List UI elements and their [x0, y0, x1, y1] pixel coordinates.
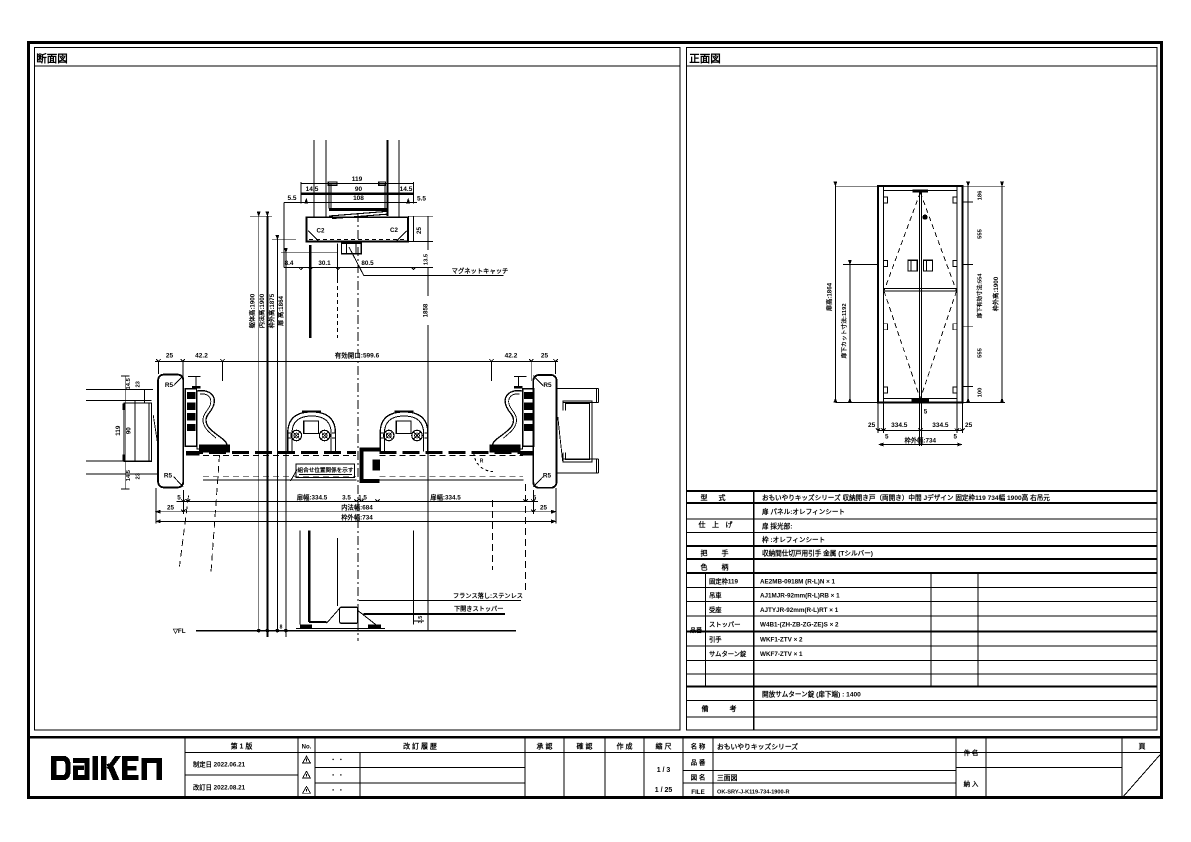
svg-text:・ ・: ・ ・ — [330, 788, 344, 794]
svg-text:5: 5 — [953, 433, 957, 440]
svg-text:受座: 受座 — [709, 605, 722, 614]
svg-text:三面図: 三面図 — [717, 773, 738, 782]
svg-text:扉下有効寸法:554: 扉下有効寸法:554 — [976, 273, 984, 319]
svg-text:13.5: 13.5 — [424, 253, 430, 265]
svg-text:42.2: 42.2 — [195, 353, 208, 360]
svg-text:25: 25 — [868, 422, 876, 429]
svg-text:100: 100 — [978, 388, 984, 398]
svg-text:扉高:1864: 扉高:1864 — [826, 282, 834, 312]
svg-text:R: R — [480, 459, 484, 465]
svg-text:R5: R5 — [543, 473, 552, 480]
svg-text:1 / 3: 1 / 3 — [657, 767, 671, 774]
svg-text:備: 備 — [702, 704, 709, 713]
svg-text:内法幅:684: 内法幅:684 — [341, 503, 373, 512]
svg-text:5: 5 — [885, 433, 889, 440]
svg-text:マグネットキャッチ: マグネットキャッチ — [452, 266, 509, 275]
svg-text:制定日 2022.06.21: 制定日 2022.06.21 — [193, 760, 246, 769]
svg-text:フランス落し:ステンレス: フランス落し:ステンレス — [453, 592, 523, 600]
svg-text:1858: 1858 — [423, 303, 430, 317]
svg-text:作 成: 作 成 — [617, 742, 633, 751]
svg-text:186: 186 — [978, 190, 984, 200]
svg-text:式: 式 — [719, 493, 726, 502]
svg-text:おもいやりキッズシリーズ: おもいやりキッズシリーズ — [717, 742, 798, 751]
svg-text:25: 25 — [167, 505, 175, 512]
svg-text:334.5: 334.5 — [932, 422, 949, 429]
svg-text:枠外幅:734: 枠外幅:734 — [904, 436, 937, 445]
svg-text:改訂日 2022.08.21: 改訂日 2022.08.21 — [193, 783, 246, 792]
svg-text:把: 把 — [701, 549, 708, 558]
svg-text:119: 119 — [352, 176, 363, 183]
svg-text:5: 5 — [177, 495, 181, 502]
svg-text:品 番: 品 番 — [691, 758, 706, 767]
svg-text:AJ1MJR-92mm(R-L)RB × 1: AJ1MJR-92mm(R-L)RB × 1 — [760, 593, 840, 600]
svg-text:上: 上 — [712, 520, 719, 529]
svg-text:W4B1-(ZH-ZB-ZG-ZE)S × 2: W4B1-(ZH-ZB-ZG-ZE)S × 2 — [760, 622, 839, 629]
svg-text:名 称: 名 称 — [691, 742, 706, 751]
svg-text:躯体高:1900: 躯体高:1900 — [249, 293, 257, 329]
svg-text:開放サムターン錠 (扉下端) : 1400: 開放サムターン錠 (扉下端) : 1400 — [762, 690, 861, 699]
svg-text:5: 5 — [924, 409, 928, 416]
svg-text:正面図: 正面図 — [689, 53, 721, 65]
svg-text:頁: 頁 — [1139, 743, 1146, 751]
svg-text:改 訂 履 歴: 改 訂 履 歴 — [403, 742, 437, 751]
svg-text:14.5: 14.5 — [126, 469, 132, 481]
svg-text:色: 色 — [701, 563, 708, 572]
svg-text:内法高:1900: 内法高:1900 — [258, 293, 266, 328]
svg-text:仕: 仕 — [698, 520, 706, 529]
svg-text:・ ・: ・ ・ — [330, 758, 344, 764]
svg-text:有効開口:599.6: 有効開口:599.6 — [335, 351, 380, 360]
svg-text:枠外幅:734: 枠外幅:734 — [340, 513, 373, 522]
svg-text:扉 高:1864: 扉 高:1864 — [277, 295, 285, 326]
svg-text:25: 25 — [540, 505, 548, 512]
svg-text:型: 型 — [701, 493, 708, 502]
svg-text:下開きストッパー: 下開きストッパー — [454, 605, 504, 613]
svg-text:WKF7-ZTV × 1: WKF7-ZTV × 1 — [760, 651, 803, 658]
svg-text:固定枠119: 固定枠119 — [709, 577, 739, 586]
svg-text:25: 25 — [166, 353, 174, 360]
svg-text:枠外高:1875: 枠外高:1875 — [268, 293, 276, 329]
svg-text:断面図: 断面図 — [36, 52, 68, 65]
svg-text:おもいやりキッズシリーズ 収納開き戸（両開き）中間 Jデ: おもいやりキッズシリーズ 収納開き戸（両開き）中間 Jデザイン 固定枠119 7… — [762, 493, 1050, 502]
svg-text:手: 手 — [722, 549, 729, 558]
svg-text:げ: げ — [726, 520, 734, 529]
svg-text:納 入: 納 入 — [964, 779, 979, 788]
svg-text:23: 23 — [135, 380, 141, 387]
svg-text:FILE: FILE — [691, 789, 704, 796]
svg-text:23: 23 — [135, 472, 141, 479]
svg-text:考: 考 — [730, 704, 737, 713]
svg-text:扉 採光部:: 扉 採光部: — [762, 522, 792, 531]
svg-text:30.1: 30.1 — [318, 260, 331, 267]
svg-text:5.5: 5.5 — [287, 195, 296, 202]
svg-text:AE2MB-0918M (R-L)N × 1: AE2MB-0918M (R-L)N × 1 — [760, 579, 836, 586]
svg-text:▽FL: ▽FL — [172, 628, 186, 635]
svg-text:OK-SRY-J-K119-734-1900-R: OK-SRY-J-K119-734-1900-R — [717, 790, 790, 796]
svg-text:8: 8 — [280, 625, 283, 631]
svg-text:334.5: 334.5 — [891, 422, 908, 429]
svg-text:組合せ位置関係を示す: 組合せ位置関係を示す — [298, 466, 354, 474]
svg-text:25: 25 — [541, 353, 549, 360]
svg-text:品番: 品番 — [690, 627, 703, 635]
svg-text:3.5: 3.5 — [342, 495, 351, 502]
svg-text:555: 555 — [978, 228, 984, 238]
svg-text:No.: No. — [302, 745, 312, 751]
svg-text:R5: R5 — [165, 382, 174, 389]
svg-text:1 / 25: 1 / 25 — [655, 787, 673, 794]
svg-text:収納間仕切戸用引手 金属 (Tシルバー): 収納間仕切戸用引手 金属 (Tシルバー) — [762, 549, 873, 558]
svg-text:108: 108 — [353, 195, 364, 202]
svg-text:柄: 柄 — [722, 563, 729, 572]
svg-text:90: 90 — [126, 427, 133, 434]
svg-text:枠外高:1900: 枠外高:1900 — [992, 276, 1000, 312]
svg-text:25: 25 — [416, 227, 423, 234]
svg-text:14.5: 14.5 — [306, 186, 319, 193]
svg-text:確 認: 確 認 — [577, 742, 593, 751]
svg-text:R5: R5 — [164, 473, 173, 480]
svg-text:90: 90 — [355, 186, 363, 193]
svg-text:図 名: 図 名 — [691, 773, 706, 782]
svg-text:WKF1-ZTV × 2: WKF1-ZTV × 2 — [760, 637, 803, 644]
svg-text:119: 119 — [115, 425, 122, 436]
svg-text:14.5: 14.5 — [126, 377, 132, 389]
svg-text:5.5: 5.5 — [417, 195, 426, 202]
svg-text:枠 :オレフィンシート: 枠 :オレフィンシート — [762, 535, 825, 544]
svg-text:件 名: 件 名 — [964, 748, 979, 757]
svg-text:42.2: 42.2 — [505, 353, 518, 360]
svg-text:・ ・: ・ ・ — [330, 773, 344, 779]
svg-text:承 認: 承 認 — [537, 742, 553, 751]
svg-text:C2: C2 — [390, 227, 398, 234]
svg-text:R5: R5 — [543, 382, 552, 389]
svg-text:14.5: 14.5 — [400, 186, 413, 193]
svg-text:AJTYJR-92mm(R-L)RT × 1: AJTYJR-92mm(R-L)RT × 1 — [760, 607, 839, 614]
svg-text:扉 パネル:オレフィンシート: 扉 パネル:オレフィンシート — [762, 507, 845, 516]
svg-text:ストッパー: ストッパー — [709, 620, 740, 629]
svg-text:3.5: 3.5 — [418, 616, 424, 624]
svg-text:第 1 版: 第 1 版 — [231, 742, 253, 751]
svg-text:扉幅:334.5: 扉幅:334.5 — [430, 493, 461, 502]
svg-text:サムターン錠: サムターン錠 — [709, 649, 747, 658]
svg-text:25: 25 — [965, 422, 973, 429]
svg-text:C2: C2 — [317, 228, 325, 235]
svg-text:扉下カット寸法:1192: 扉下カット寸法:1192 — [840, 303, 848, 359]
svg-text:吊車: 吊車 — [709, 591, 722, 600]
svg-text:引手: 引手 — [709, 635, 722, 644]
svg-text:縮 尺: 縮 尺 — [656, 742, 672, 751]
svg-text:555: 555 — [978, 347, 984, 357]
svg-text:扉幅:334.5: 扉幅:334.5 — [297, 493, 328, 502]
svg-text:80.5: 80.5 — [361, 260, 374, 267]
